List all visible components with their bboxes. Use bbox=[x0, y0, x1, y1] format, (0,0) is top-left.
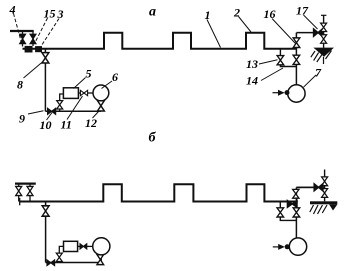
svg-text:12: 12 bbox=[85, 116, 97, 130]
svg-text:10: 10 bbox=[40, 118, 52, 132]
svg-text:15: 15 bbox=[44, 7, 56, 21]
svg-text:17: 17 bbox=[296, 4, 309, 18]
svg-text:б: б bbox=[149, 131, 157, 146]
svg-text:3: 3 bbox=[57, 7, 64, 21]
svg-text:9: 9 bbox=[19, 112, 25, 126]
svg-text:7: 7 bbox=[315, 66, 322, 80]
svg-text:4: 4 bbox=[9, 3, 16, 17]
svg-text:6: 6 bbox=[112, 70, 118, 84]
svg-text:16: 16 bbox=[264, 7, 276, 21]
svg-text:5: 5 bbox=[86, 67, 92, 81]
svg-text:а: а bbox=[149, 5, 156, 20]
svg-text:8: 8 bbox=[17, 78, 23, 92]
svg-text:11: 11 bbox=[61, 118, 72, 132]
svg-text:1: 1 bbox=[205, 8, 211, 22]
svg-text:2: 2 bbox=[233, 6, 240, 20]
svg-text:13: 13 bbox=[246, 57, 258, 71]
svg-text:14: 14 bbox=[246, 74, 258, 88]
